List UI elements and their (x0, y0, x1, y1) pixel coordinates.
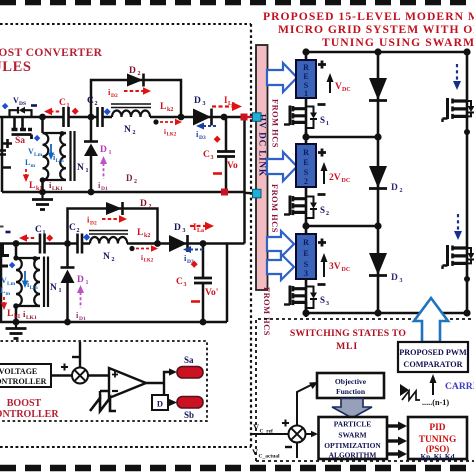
ground module1 (32, 192, 53, 210)
svg-text:2: 2 (304, 177, 308, 186)
arrow FROM HCS 1 (267, 63, 297, 92)
svg-text:C: C (69, 223, 76, 233)
svg-text:D: D (391, 273, 398, 283)
core lines N2 module2 (89, 231, 128, 235)
svg-text:3: 3 (400, 278, 403, 284)
marker red diamond right of C1 module2 (46, 234, 53, 241)
svg-text:3: 3 (184, 282, 187, 288)
bottom thick dashed border (0, 465, 474, 472)
controller dashed box (0, 341, 207, 421)
svg-text:2: 2 (326, 211, 329, 217)
cell block RES3 (296, 234, 316, 279)
label D2 module1 top branch (129, 66, 141, 77)
summing junction PSO (289, 426, 306, 443)
svg-text:Vo: Vo (227, 161, 238, 171)
transformer N1 module2 left winding (16, 258, 22, 306)
capacitor C1 module2 (40, 234, 45, 254)
capacitor C3 module2 (194, 278, 212, 283)
wire sawtooth input (100, 391, 109, 399)
svg-text:SWITCHING STATES TO: SWITCHING STATES TO (290, 328, 406, 339)
voltage controller block (0, 364, 51, 387)
marker plus/minus RES1 (318, 61, 327, 105)
label ILa + arrow module2 (193, 222, 204, 234)
wire MLI left leg (305, 52, 308, 313)
svg-text:1: 1 (304, 89, 308, 98)
svg-text:N: N (50, 283, 57, 293)
top thick dashed border (0, 0, 474, 5)
label minus summing controller (72, 356, 79, 358)
arrow VDC1 (327, 73, 334, 93)
svg-text:L: L (160, 102, 166, 112)
label iLK1 module2 (23, 309, 37, 321)
svg-text:DC: DC (342, 87, 351, 93)
svg-text:k1: k1 (36, 186, 42, 192)
diode Da (MLI top) (369, 78, 387, 101)
wire VC_ref into summing (252, 433, 288, 435)
marker red diamond C3 module1 (214, 136, 221, 143)
marker red diamond right of C1 module1 (72, 108, 79, 115)
svg-text:2V: 2V (329, 173, 341, 183)
svg-text:1: 1 (326, 121, 329, 127)
label Lk2 module1 (160, 102, 173, 113)
svg-text:FROM HCS: FROM HCS (270, 184, 279, 233)
node cyan dot output2 (253, 189, 262, 198)
core lines N2 module1 (111, 104, 151, 108)
wire transformer primary drop (41, 117, 44, 192)
svg-text:R: R (303, 63, 309, 72)
label Lk1 + arrow module2 (1, 297, 7, 310)
label Lk2 module2 (137, 228, 150, 239)
label D1 + arrow module1 (100, 145, 112, 156)
label iLK1 module1 (49, 180, 63, 192)
label VDS (13, 96, 26, 107)
label D3 module1 (194, 96, 206, 107)
svg-text:3: 3 (183, 228, 186, 234)
wire C3 branch module2 (202, 244, 205, 323)
label VDC (335, 82, 351, 93)
svg-text:1: 1 (109, 150, 112, 156)
svg-text:S: S (320, 115, 325, 125)
svg-text:D: D (100, 145, 107, 155)
node dots MLI (302, 48, 470, 316)
label iLm + arrow module1 (53, 153, 64, 164)
svg-text:COMPARATOR: COMPARATOR (403, 360, 462, 369)
summing junction controller (72, 368, 88, 384)
svg-text:2: 2 (112, 257, 115, 263)
coupled inductor N2 winding module1 (112, 111, 150, 118)
svg-text:D: D (129, 66, 136, 76)
carrier sawtooth glyph (400, 384, 420, 400)
svg-text:TUNING USING SWARM OP: TUNING USING SWARM OP (322, 36, 474, 49)
capacitor C1 module1 (64, 107, 69, 127)
svg-text:2: 2 (95, 101, 98, 107)
svg-text:D: D (174, 223, 181, 233)
op-amp comparator controller (109, 368, 146, 398)
svg-text:2: 2 (149, 204, 152, 210)
mosfet S1 (284, 98, 317, 137)
wire main bus module1 (0, 116, 244, 119)
label iLK2 + arrow module2 (141, 254, 154, 264)
label D3 module2 (174, 223, 186, 234)
label iD2 + arrow module1 (108, 87, 118, 99)
label VLm module1 (28, 147, 43, 158)
wire transformer primary drop module2 (15, 244, 18, 323)
svg-text:k2: k2 (144, 233, 150, 239)
arrow big blue to MLI (414, 298, 448, 342)
label iD3 + arrow module1 (196, 129, 206, 141)
wire MLI top bus (306, 51, 467, 54)
marker blue diamond transformer module2 (9, 262, 16, 269)
wire VC_actual into summing (296, 443, 298, 459)
block Objective Function (317, 373, 384, 398)
svg-text:CARRIE: CARRIE (445, 381, 474, 392)
svg-text:2: 2 (133, 130, 136, 136)
label C2 module2 (69, 223, 80, 234)
svg-text:D2: D2 (90, 221, 97, 227)
svg-text:3V: 3V (329, 262, 341, 272)
arrow FROM HCS 3a (267, 231, 294, 257)
svg-text:CONTROLLER: CONTROLLER (0, 409, 59, 420)
wire D to Sb (168, 401, 170, 403)
mosfet S3 (284, 278, 317, 317)
svg-text:CONTROLLER: CONTROLLER (0, 377, 47, 386)
diode D3 (MLI bottom) (369, 253, 387, 276)
wire MLI bottom bus (306, 312, 467, 315)
svg-text:LK2: LK2 (167, 133, 177, 138)
label S3 (320, 295, 329, 307)
diode D1 module2 (vertical, apex up) (61, 268, 75, 284)
svg-text:R: R (303, 148, 309, 157)
svg-text:Lm: Lm (7, 281, 16, 287)
marker plus/minus RES3 (318, 239, 327, 285)
label VC_ref (253, 422, 273, 435)
wire output right side module2 (226, 244, 229, 323)
wire main bus module2 (0, 242, 245, 245)
label S2 (320, 205, 329, 217)
label iLm + arrow module2 (27, 280, 38, 291)
diode D2 module2 (top branch) (106, 202, 123, 215)
label ILa + arrow module1 (224, 95, 235, 107)
node dots module2 (13, 240, 207, 325)
diode D2 module1 (top branch) (127, 74, 144, 87)
arrow VDC2 (321, 162, 328, 184)
svg-text:k1: k1 (14, 314, 20, 320)
svg-text:m: m (6, 291, 11, 297)
svg-text:VOLTAGE: VOLTAGE (0, 367, 37, 376)
label iD3 + arrow module2 (184, 253, 194, 265)
svg-text:Sa: Sa (15, 136, 25, 146)
wire feedback into summing top (79, 342, 81, 368)
wire summing to PSO block (306, 431, 319, 437)
HV DC LINK pink bar (256, 45, 268, 290)
svg-text:PROPOSED PWM: PROPOSED PWM (399, 348, 467, 357)
svg-text:1: 1 (86, 280, 89, 286)
svg-text:D1: D1 (79, 316, 86, 322)
svg-text:3: 3 (326, 301, 329, 307)
cell block RES2 (296, 144, 316, 187)
transformer N1 module1 connectors (43, 133, 67, 180)
svg-text:S: S (320, 205, 325, 215)
svg-text:D2: D2 (111, 93, 118, 99)
label iD1 module2 (76, 310, 86, 322)
label 3VDC (329, 262, 350, 273)
wire summing to objective function (297, 382, 318, 426)
switching states dashed box (256, 319, 474, 461)
svg-text:C_actual: C_actual (259, 454, 281, 460)
svg-text:1: 1 (59, 288, 62, 294)
switch Sa module1 (MOSFET + bypass diode) (10, 107, 33, 139)
svg-text:.....(n-1): .....(n-1) (422, 398, 449, 407)
arrow gray down to PSO (332, 399, 372, 419)
svg-text:L: L (29, 181, 35, 191)
wire source left module2 (0, 244, 2, 323)
wire bottom rail module2 (0, 321, 227, 324)
wire source left module1 (1, 117, 4, 192)
cell block RES1 (296, 60, 316, 98)
svg-text:D: D (194, 96, 201, 106)
svg-text:C: C (35, 225, 42, 235)
node red dot module1 rail (221, 189, 228, 196)
svg-text:C: C (203, 150, 210, 160)
svg-text:m: m (31, 163, 36, 169)
svg-text:FROM HCS: FROM HCS (262, 287, 271, 336)
svg-text:SWARM: SWARM (338, 431, 366, 440)
svg-text:D: D (126, 173, 133, 183)
wire MLI node line 2 (306, 225, 378, 228)
capacitor C3 module1 (217, 152, 235, 157)
svg-text:D1: D1 (101, 186, 108, 192)
arrow gate M2 (blue dashed) (454, 214, 462, 240)
svg-text:E: E (303, 72, 308, 81)
marker red diamond C3 module2 (191, 261, 198, 268)
svg-text:V: V (335, 82, 342, 92)
svg-text:N: N (77, 163, 84, 173)
transformer N1 module2 right winding (34, 258, 40, 306)
diode D1 module1 (vertical, apex up) (84, 142, 98, 157)
svg-text:Vo': Vo' (205, 288, 218, 298)
svg-text:E: E (303, 158, 308, 167)
marker blue diamond right of C2 module2 (83, 234, 90, 241)
svg-text:FROM HCS: FROM HCS (271, 99, 280, 148)
wire D1 branch module2 (66, 244, 69, 323)
svg-text:Sb: Sb (184, 410, 194, 420)
arrow carrier into comparator (430, 374, 437, 395)
svg-text:DS: DS (19, 101, 26, 107)
transformer N1 module2 core (44, 257, 48, 308)
arrow red dashed left of C1 module2 (19, 234, 36, 241)
svg-text:1: 1 (86, 168, 89, 174)
svg-text:MLI: MLI (336, 341, 358, 352)
marker blue diamonds VDS (2, 103, 9, 110)
diode D3 module2 (on main wire) (169, 235, 188, 252)
transformer N1 module1 left winding (43, 133, 49, 180)
svg-text:S: S (304, 260, 309, 269)
marker dark bar module2 VDS (6, 231, 11, 234)
svg-text:1: 1 (67, 103, 70, 109)
wire bottom rail module1 (2, 191, 245, 194)
label plus summing controller (61, 364, 68, 371)
svg-text:N: N (124, 125, 131, 135)
diode D3 module1 (on main wire) (193, 109, 212, 126)
wire red link to HVDC module1 (244, 116, 257, 118)
label iD2 + arrow module2 (87, 215, 97, 227)
wire VC to summing (51, 374, 72, 377)
label D2 MLI (391, 183, 403, 194)
label N1 module1 (77, 163, 89, 174)
wire rail link to HVDC (245, 192, 258, 195)
svg-text:2: 2 (77, 228, 80, 234)
label minus summing PSO (285, 446, 292, 448)
wire MLI right leg (466, 52, 469, 313)
wire top branch D2 loop module1 (91, 80, 181, 117)
bottom outer dashed line (0, 446, 251, 448)
svg-text:2: 2 (134, 179, 137, 185)
label VLm module2 (1, 276, 16, 287)
svg-text:Sa: Sa (184, 355, 194, 365)
marker red minus C3 module2 (191, 300, 200, 303)
svg-text:PROPOSED 15-LEVEL MODERN MULT: PROPOSED 15-LEVEL MODERN MULT (263, 10, 474, 23)
svg-text:DC: DC (342, 267, 351, 273)
svg-text:PID: PID (429, 423, 445, 433)
svg-text:DC: DC (342, 178, 351, 184)
svg-text:C: C (87, 96, 94, 106)
svg-text:k2: k2 (167, 107, 173, 113)
transformer N1 module1 core (71, 131, 75, 181)
label D2 stray module1 (126, 173, 137, 185)
label N1 module2 (50, 283, 62, 294)
svg-text:R: R (303, 238, 309, 247)
wire top branch D2 loop module2 (68, 209, 158, 244)
svg-text:D: D (391, 183, 398, 193)
wire comparator output (146, 372, 170, 403)
output pill Sb (177, 397, 203, 409)
marker plus/minus RES2 (318, 149, 327, 195)
switch module2 (cropped at left) (0, 244, 9, 267)
wire D1 branch module1 (90, 117, 93, 192)
svg-text:LK1: LK1 (26, 315, 37, 321)
sawtooth generator controller (90, 398, 116, 411)
label N2 module1 (124, 125, 136, 136)
svg-text:L: L (7, 309, 13, 319)
node cyan dot output1 (253, 113, 262, 122)
capacitor C2 module2 (78, 234, 83, 254)
source marks module1 (0, 139, 12, 168)
svg-text:3: 3 (304, 269, 308, 278)
svg-text:Function: Function (336, 387, 366, 396)
svg-text:Lm: Lm (30, 285, 39, 291)
transformer N1 module1 right winding (60, 133, 66, 180)
capacitor C2 module1 (98, 107, 103, 127)
svg-text:D3: D3 (199, 135, 206, 141)
svg-text:1: 1 (43, 230, 46, 236)
svg-text:2: 2 (400, 188, 403, 194)
label 2VDC (329, 173, 350, 184)
svg-text:LK1: LK1 (52, 186, 63, 192)
label Lk1 + arrow module1 (23, 169, 29, 182)
boost modules dashed box right edge (250, 24, 252, 447)
label C1 module2 (35, 225, 46, 236)
block PID TUNING (PSO) (408, 417, 467, 459)
boost modules dashed box top edge (0, 23, 251, 25)
svg-text:Kp, Ki, Kd: Kp, Ki, Kd (421, 453, 455, 461)
arrow red dashed left of C1 module1 (44, 108, 61, 115)
svg-text:La: La (197, 228, 204, 234)
svg-text:LK2: LK2 (144, 259, 154, 264)
block PROPOSED PWM COMPARATOR (398, 342, 468, 372)
label BOOST CONTROLLER (0, 398, 59, 420)
label C3 module2 (176, 277, 187, 288)
wire summing to comparator (88, 374, 109, 377)
transformer N1 module2 connectors (16, 258, 40, 306)
svg-text:S: S (320, 295, 325, 305)
label Lm module2 (0, 286, 11, 297)
svg-text:2: 2 (138, 71, 141, 77)
arrows PSO to PID (three) (387, 422, 407, 459)
svg-text:L: L (137, 228, 143, 238)
svg-text:Lm: Lm (56, 158, 65, 164)
svg-text:C: C (176, 277, 183, 287)
label BOOST CONVERTER MODULES (0, 47, 103, 75)
delay block D (152, 395, 168, 410)
label SWITCHING STATES TO MLI (290, 328, 406, 352)
coupled inductor N2 winding module2 (90, 237, 127, 244)
svg-text:BOOST CONVERTER: BOOST CONVERTER (0, 47, 103, 59)
ground module2 (6, 322, 27, 339)
node red dot module1 output (241, 114, 248, 121)
svg-text:D: D (140, 199, 147, 209)
label D1 + arrow module2 (77, 275, 89, 286)
marker blue diamond right of C2 module1 (104, 108, 111, 115)
svg-text:3: 3 (211, 155, 214, 161)
arrow gate M1 (blue dashed) (453, 64, 461, 90)
arrow VDC3 (321, 253, 328, 277)
label plus summing PSO (282, 420, 289, 427)
label iD1 module1 (98, 180, 108, 192)
svg-text:MICRO GRID SYSTEM WITH OPTIM: MICRO GRID SYSTEM WITH OPTIM (278, 23, 474, 36)
output pill Sa (177, 367, 203, 379)
wire MLI diode leg (377, 52, 380, 313)
mosfet S2 (284, 188, 317, 227)
label D2 module2 (140, 199, 152, 210)
label D3 MLI (391, 273, 403, 284)
label S1 (320, 115, 329, 127)
wire C3 branch module1 (225, 117, 228, 192)
svg-text:C: C (59, 98, 66, 108)
svg-text:E: E (303, 249, 308, 258)
label VC_actual (252, 447, 280, 460)
boost modules dashed box bottom edge (0, 446, 249, 448)
svg-text:MODULES: MODULES (0, 59, 32, 75)
arrow FROM HCS 2 (267, 152, 297, 181)
label N2 module2 (103, 252, 115, 263)
label C3 module1 (203, 150, 214, 161)
svg-text:N: N (103, 252, 110, 262)
svg-text:PARTICLE: PARTICLE (334, 420, 371, 429)
label iLK2 + arrow module1 (164, 128, 177, 138)
mosfet M1 right leg (443, 98, 474, 122)
marker red minus C3 module1 (213, 172, 222, 175)
svg-text:3: 3 (203, 101, 206, 107)
wire MLI node line 1 (306, 136, 378, 139)
svg-text:Objective: Objective (335, 377, 367, 386)
svg-text:S: S (304, 168, 309, 177)
node dots module1 (39, 114, 227, 196)
svg-text:D: D (77, 275, 84, 285)
wire output right side module1 (243, 117, 246, 244)
svg-text:Lm: Lm (34, 152, 43, 158)
svg-text:ALGORITHM: ALGORITHM (329, 451, 377, 460)
arrow FROM HCS 3b (267, 254, 294, 280)
